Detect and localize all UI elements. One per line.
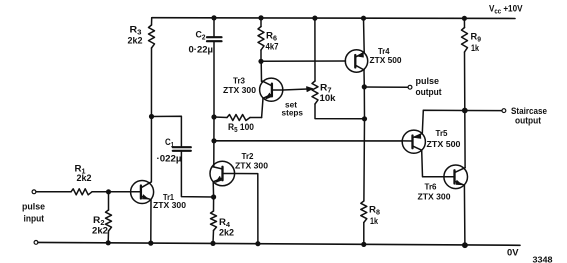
svg-text:1k: 1k — [471, 43, 480, 54]
svg-text:input: input — [24, 214, 45, 225]
capacitor C2 — [213, 18, 215, 36]
transistor Tr3 ZTX300 (mirrored, base right) — [260, 78, 283, 101]
node: rail-R9 junction — [462, 16, 467, 21]
svg-text:ZTX 300: ZTX 300 — [153, 200, 186, 210]
svg-text:0·22µ: 0·22µ — [189, 45, 214, 56]
wire: R5 to Tr3 emitter branch — [250, 117, 262, 119]
svg-text:1k: 1k — [370, 216, 379, 227]
resistor R8 — [361, 201, 367, 223]
svg-text:Tr6: Tr6 — [425, 182, 437, 192]
wire: Tr2 base to 0V rail — [235, 174, 258, 244]
svg-text:ZTX 500: ZTX 500 — [370, 55, 402, 65]
svg-text:0V: 0V — [507, 248, 519, 259]
wire: Tr5 emitter up to staircase node — [422, 110, 465, 133]
wire: C2 node down to Tr2 collector — [213, 117, 215, 167]
wire: pulse node down to R8 — [363, 87, 366, 201]
wire: R8 to 0V rail — [363, 223, 365, 245]
node: rail-C2 junction — [211, 15, 216, 20]
svg-text:Tr3: Tr3 — [233, 76, 245, 86]
wire: R3 bottom to Tr1 collector — [150, 48, 152, 182]
svg-text:2k2: 2k2 — [219, 228, 234, 239]
wire: R1 to node — [92, 191, 109, 193]
node: R2 bottom rail junction — [106, 240, 111, 245]
terminal: staircase output — [502, 109, 506, 113]
svg-text:ZTX 300: ZTX 300 — [418, 192, 451, 202]
transistor Tr1 ZTX300 (base left) — [131, 181, 154, 204]
node: R4 bottom rail junction — [210, 241, 215, 246]
resistor R3 — [149, 25, 155, 48]
wire: Tr3 base to R7 wiper — [283, 89, 308, 90]
wire: R9 bottom to staircase node — [464, 52, 466, 111]
svg-text:pulse: pulse — [22, 202, 45, 213]
svg-text:2k2: 2k2 — [77, 173, 92, 184]
wire: Vcc +10V top rail — [152, 17, 515, 20]
wire: rail to R6 — [260, 18, 262, 27]
wire: rail to R3 top — [151, 18, 153, 25]
R7 wiper arrowhead — [307, 87, 313, 92]
svg-text:R8: R8 — [369, 205, 380, 217]
svg-text:Tr5: Tr5 — [436, 128, 448, 138]
svg-text:Vcc +10V: Vcc +10V — [489, 4, 523, 16]
wire: pulse output stub — [364, 86, 408, 88]
node: Tr1 emitter rail junction — [148, 241, 153, 246]
resistor R1 — [71, 189, 92, 195]
transistor Tr4 ZTX500 (PNP, base left) — [345, 50, 367, 72]
svg-text:C2: C2 — [196, 30, 206, 42]
wire: staircase node to terminal — [465, 110, 502, 112]
wire: R7 bottom to x364 line — [315, 104, 365, 119]
wire: node to Tr1 base — [109, 191, 131, 193]
svg-text:Tr2: Tr2 — [242, 151, 254, 161]
svg-text:ZTX 300: ZTX 300 — [235, 161, 268, 171]
wire: node to Tr5 base (long horizontal) — [214, 140, 402, 142]
terminal: pulse output — [408, 85, 412, 89]
terminal: input lower — [34, 241, 38, 245]
wire: rail to R7 top — [314, 18, 316, 81]
transistor Tr5 ZTX500 (PNP, base left) — [402, 130, 425, 153]
resistor R9 — [462, 28, 468, 53]
wire: node down to R2 — [108, 192, 110, 210]
wire: R4 to 0V rail — [212, 231, 215, 244]
node: R4 top junction — [211, 194, 216, 199]
wire: node to R4 — [213, 197, 215, 211]
svg-text:C1: C1 — [165, 137, 174, 149]
svg-text:R9: R9 — [471, 32, 482, 44]
svg-text:ZTX 500: ZTX 500 — [427, 139, 461, 149]
wire: Tr6 collector up to staircase node — [464, 111, 466, 168]
svg-text:4k7: 4k7 — [266, 42, 279, 53]
svg-text:10k: 10k — [320, 93, 337, 104]
svg-text:pulse: pulse — [416, 76, 440, 87]
wire: input to R1 — [36, 191, 71, 193]
wire: Tr4 emitter up to rail — [363, 18, 366, 52]
wire: Tr2 emitter to R4 node — [212, 182, 214, 197]
input terminal — [32, 190, 36, 194]
capacitor C1 — [152, 116, 182, 146]
resistor R6 — [258, 27, 264, 51]
node: rail-R6 junction — [258, 15, 263, 20]
node: R7 bottom junction — [362, 116, 367, 121]
wire: Tr6 emitter down to 0V rail — [463, 185, 466, 245]
wire: Tr3 emitter down to R5 — [262, 98, 263, 117]
node: staircase junction — [462, 108, 468, 114]
wire: Tr5 collector down to Tr6 base — [422, 150, 444, 177]
svg-text:R5 100: R5 100 — [228, 122, 254, 134]
svg-text:·022µ: ·022µ — [157, 154, 182, 165]
node: rail-R7 junction — [312, 16, 317, 21]
svg-text:output: output — [416, 87, 443, 98]
wire: node to Tr4 base — [261, 60, 346, 62]
node: Tr2 base rail junction — [255, 241, 260, 246]
node: Tr5 base wire junction — [211, 138, 216, 143]
node: R6-Tr3-Tr4 junction — [258, 59, 263, 64]
node: C1 top junction — [149, 114, 154, 119]
wire: Tr1 emitter down to 0V rail — [150, 200, 152, 243]
wire: R2 to 0V rail — [107, 231, 109, 243]
node: Tr6 emitter rail junction — [462, 242, 468, 248]
wire: Tr4 collector down pulse node — [363, 70, 365, 87]
resistor R4 — [211, 211, 217, 231]
svg-text:2k2: 2k2 — [92, 226, 108, 237]
wire: rail to R9 — [463, 18, 465, 27]
resistor R2 — [106, 210, 112, 231]
node: input junction — [106, 189, 111, 194]
node: pulse output junction — [362, 84, 367, 89]
svg-text:2k2: 2k2 — [128, 36, 143, 47]
wire: 0V bottom rail — [38, 242, 520, 245]
resistor R5 — [227, 115, 250, 121]
wire: C2 node to R5 — [214, 116, 227, 119]
svg-text:steps: steps — [282, 108, 304, 118]
svg-text:ZTX 300: ZTX 300 — [223, 85, 256, 95]
transistor Tr2 ZTX300 (mirrored, base right) — [210, 161, 235, 186]
resistor R7 potentiometer — [312, 81, 318, 104]
node: R8 bottom rail junction — [361, 242, 366, 247]
wire: R6 bottom to node — [260, 50, 262, 61]
node: rail-Tr4 junction — [361, 16, 366, 21]
wire: Tr3 collector up to node — [261, 61, 262, 81]
node: R5-C2 junction — [211, 114, 216, 119]
transistor Tr6 ZTX300 (base left) — [444, 165, 468, 189]
svg-text:output: output — [515, 116, 542, 127]
svg-text:3348: 3348 — [533, 256, 554, 263]
